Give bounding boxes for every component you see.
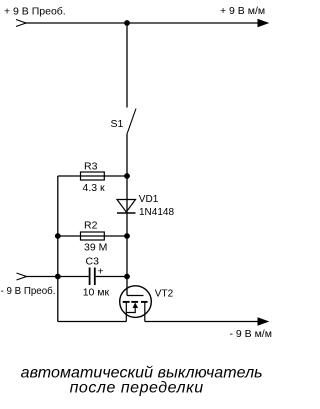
svg-text:+ 9 В м/м: + 9 В м/м: [220, 5, 265, 17]
svg-text:после переделки: после переделки: [70, 380, 204, 397]
svg-text:VT2: VT2: [155, 288, 174, 299]
svg-text:R3: R3: [84, 160, 98, 172]
svg-text:R2: R2: [84, 219, 98, 231]
svg-text:39 M: 39 M: [84, 242, 107, 254]
svg-text:- 9 В м/м: - 9 В м/м: [230, 328, 272, 340]
svg-text:- 9 В Преоб.: - 9 В Преоб.: [1, 285, 56, 297]
svg-text:4.3 к: 4.3 к: [83, 182, 106, 194]
svg-text:VD1: VD1: [139, 194, 159, 205]
svg-text:10 мк: 10 мк: [83, 286, 110, 298]
svg-text:+: +: [98, 266, 104, 278]
svg-text:+ 9 В Преоб.: + 9 В Преоб.: [4, 5, 66, 17]
svg-text:S1: S1: [111, 118, 124, 130]
svg-text:1N4148: 1N4148: [139, 207, 174, 218]
